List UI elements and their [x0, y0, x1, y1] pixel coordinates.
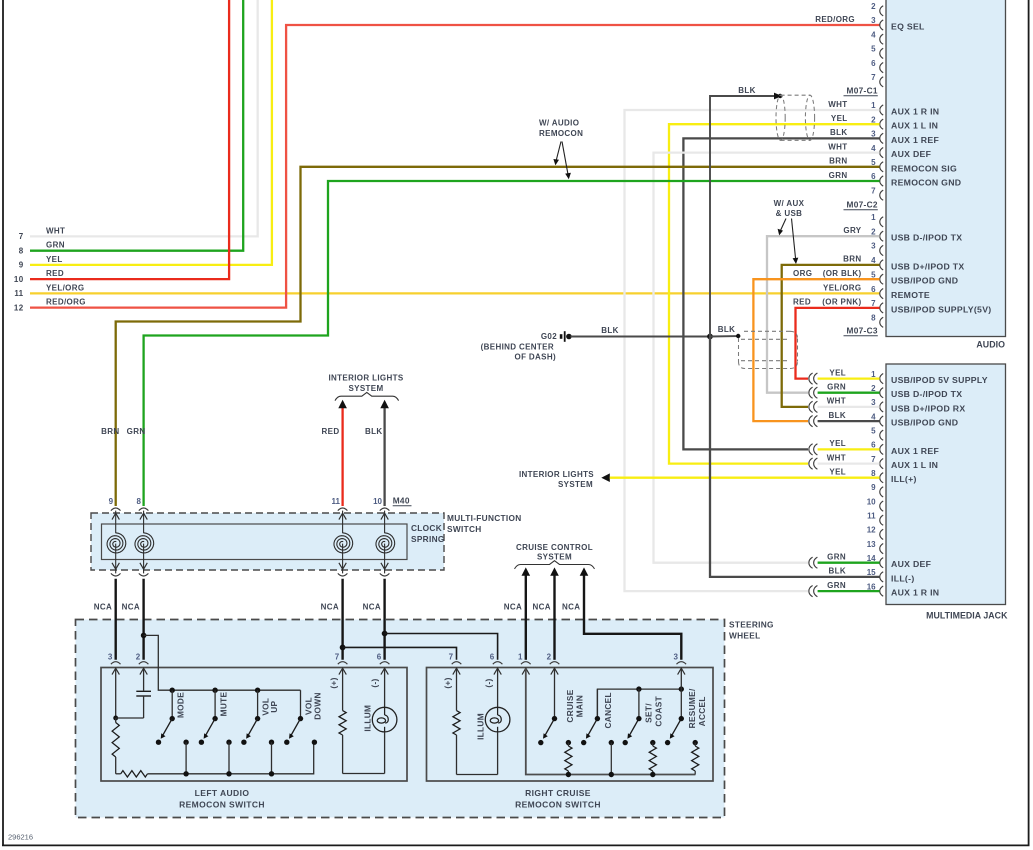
svg-text:& USB: & USB — [776, 209, 803, 218]
wire GRY from M07-C2 pin 2 to multimedia jack pin 2 — [767, 236, 880, 393]
left audio remocon switch box — [101, 668, 407, 782]
wire NCA into cruise pin 1 — [525, 620, 527, 660]
clock spring pin 10 lower connector — [380, 573, 390, 576]
svg-text:6: 6 — [871, 285, 876, 294]
right illum lamp L2 — [485, 668, 510, 774]
rotated label SET/ — [644, 703, 654, 723]
svg-text:5: 5 — [871, 45, 876, 54]
svg-text:2: 2 — [871, 227, 876, 236]
svg-text:RED/ORG: RED/ORG — [815, 15, 855, 24]
svg-text:RESUME/: RESUME/ — [687, 688, 697, 728]
svg-text:SPRING: SPRING — [411, 534, 445, 544]
svg-text:INTERIOR LIGHTS: INTERIOR LIGHTS — [519, 470, 594, 479]
capacitor C1 on pin 2 branch — [136, 668, 151, 718]
svg-text:4: 4 — [871, 144, 876, 153]
wire NCA into cruise pin 2 — [553, 620, 555, 660]
svg-text:RED: RED — [322, 427, 340, 436]
connector label M07-C3 — [844, 326, 878, 336]
svg-text:9: 9 — [871, 483, 876, 492]
svg-text:BRN: BRN — [843, 255, 861, 264]
svg-text:8: 8 — [19, 247, 24, 256]
resistor R6 below SET/COAST contact — [649, 743, 656, 778]
svg-text:(OR BLK): (OR BLK) — [823, 269, 862, 278]
clock spring inner box — [102, 524, 408, 560]
svg-text:5: 5 — [871, 158, 876, 167]
wire BLK from junction up to upper shield drain — [710, 93, 782, 337]
label NCA — [562, 603, 580, 612]
svg-text:(OR PNK): (OR PNK) — [822, 298, 861, 307]
svg-text:NCA: NCA — [321, 603, 339, 612]
wire BLK segment into multimedia jack pin 4 — [818, 420, 880, 422]
label NCA — [363, 603, 381, 612]
svg-text:MULTIMEDIA JACK: MULTIMEDIA JACK — [926, 611, 1008, 621]
svg-text:WHT: WHT — [46, 226, 65, 235]
wire WHT from M07-C1 pin 1 to multimedia jack pin 16 — [625, 110, 880, 591]
left switch bottom bus — [148, 742, 314, 774]
wire WHT segment into multimedia jack pin 7 — [818, 462, 880, 464]
top connector pins 2-7 (EQ SEL row 3) — [815, 2, 925, 87]
svg-text:YEL: YEL — [46, 255, 63, 264]
svg-text:AUX DEF: AUX DEF — [891, 559, 931, 569]
svg-text:MULTI-FUNCTION: MULTI-FUNCTION — [447, 513, 522, 523]
contact drop MODE to bus — [183, 742, 188, 776]
contact drop CANCEL to bus — [609, 743, 614, 778]
svg-text:WHT: WHT — [828, 142, 847, 151]
switch SET/COAST — [623, 689, 656, 745]
M07-C2 pin 6 REMOTE — [823, 283, 930, 300]
rotated label ILLUM right — [475, 713, 485, 740]
connector label M07-C1 — [844, 86, 878, 96]
svg-text:YEL/ORG: YEL/ORG — [823, 283, 861, 292]
svg-text:WHT: WHT — [827, 453, 846, 462]
clock spring label — [411, 523, 445, 544]
svg-text:(-): (-) — [369, 678, 379, 687]
wire WHT segment into multimedia jack pin 3 — [818, 406, 880, 408]
M07-C1 pin 2 AUX 1 L IN — [831, 114, 938, 131]
svg-text:ILLUM: ILLUM — [475, 713, 485, 740]
svg-text:11: 11 — [867, 511, 876, 520]
clock spring coil at pin 11 — [334, 533, 353, 574]
label NCA — [533, 603, 551, 612]
inline connector at multimedia jack pin 14 — [809, 557, 818, 568]
connector label M07-C2 — [844, 200, 878, 210]
switch box pin 2 at x=554.5 — [547, 652, 560, 674]
wire NCA to cruise control system at x=554.5 — [550, 567, 559, 620]
clock spring coil at pin 8 — [135, 533, 154, 574]
svg-text:USB D+/IPOD TX: USB D+/IPOD TX — [891, 261, 964, 271]
svg-text:11: 11 — [14, 289, 23, 298]
inline connector at multimedia jack pin 3 — [809, 401, 818, 412]
svg-text:BLK: BLK — [365, 427, 383, 436]
svg-text:5: 5 — [871, 270, 876, 279]
svg-text:SYSTEM: SYSTEM — [558, 480, 593, 489]
svg-text:1: 1 — [871, 370, 876, 379]
junction on wire to left pin 6 — [382, 631, 388, 637]
label NCA — [94, 603, 112, 612]
svg-text:USB/IPOD SUPPLY(5V): USB/IPOD SUPPLY(5V) — [891, 304, 991, 314]
svg-text:BLK: BLK — [738, 86, 756, 95]
svg-text:WHT: WHT — [828, 100, 847, 109]
junction on pin 2 wire (branch to switches) — [141, 633, 147, 639]
wire NCA branch to right cruise pin 7 — [343, 647, 457, 659]
wire label BRN at clock spring — [101, 427, 119, 436]
page border left — [2, 0, 4, 846]
svg-text:M07-C1: M07-C1 — [846, 86, 877, 96]
svg-text:(+): (+) — [443, 677, 453, 688]
svg-text:296216: 296216 — [8, 833, 33, 842]
wire label BLK (ground wire) — [601, 326, 619, 335]
svg-text:MAIN: MAIN — [575, 695, 585, 717]
svg-text:8: 8 — [137, 497, 142, 506]
svg-text:6: 6 — [490, 652, 495, 661]
wire WHT from left pin 7 up off-page — [30, 0, 258, 236]
switch VOL DOWN — [284, 690, 317, 745]
svg-text:REMOCON GND: REMOCON GND — [891, 178, 961, 188]
svg-text:AUX 1 R IN: AUX 1 R IN — [891, 107, 939, 117]
wire YEL segment into multimedia jack pin 1 — [818, 377, 880, 379]
brace cruise control system — [515, 561, 595, 569]
wire GRN segment into multimedia jack pin 2 — [818, 392, 880, 394]
clock spring pin 8 lower connector — [139, 573, 149, 576]
svg-text:BLK: BLK — [718, 325, 736, 334]
svg-text:2: 2 — [871, 384, 876, 393]
svg-text:5: 5 — [871, 426, 876, 435]
left pin 12 label RED/ORG — [14, 298, 86, 313]
connector label M40 — [393, 496, 412, 506]
svg-text:ACCEL: ACCEL — [697, 696, 707, 726]
svg-text:REMOCON: REMOCON — [539, 129, 583, 138]
switch RESUME/ACCEL — [665, 689, 698, 745]
svg-text:8: 8 — [871, 314, 876, 323]
M07-C2 pin 7 USB/IPOD SUPPLY(5V) — [793, 298, 991, 315]
rotated label CANCEL — [603, 692, 613, 728]
inline connector at multimedia jack pin 7 — [809, 458, 818, 469]
left illum lamp L1 — [372, 668, 397, 773]
wire YEL from left pin 9 up off-page — [30, 0, 272, 265]
rotated label ILLUM left — [362, 705, 372, 732]
cruise pin 3 wire into box — [680, 668, 682, 689]
svg-text:MODE: MODE — [176, 692, 186, 718]
multi-function switch label — [447, 513, 522, 534]
multimedia jack pin 15 ILL(-) — [829, 567, 915, 584]
M07-C2 pin 3 — [871, 242, 883, 256]
svg-text:9: 9 — [19, 261, 24, 270]
M07-C2 pin 2 USB D-/IPOD TX — [843, 226, 962, 243]
wire label GRN at clock spring — [127, 427, 146, 436]
multimedia jack pin 13 — [867, 540, 884, 554]
svg-text:USB D-/IPOD TX: USB D-/IPOD TX — [891, 233, 962, 243]
svg-text:7: 7 — [871, 455, 876, 464]
clock spring pin 11 — [332, 497, 348, 533]
svg-text:AUX 1 L IN: AUX 1 L IN — [891, 460, 938, 470]
junction wire pin3-pin2 — [116, 717, 144, 719]
svg-text:12: 12 — [867, 526, 876, 535]
svg-text:AUX 1 L IN: AUX 1 L IN — [891, 121, 938, 131]
switch CANCEL — [581, 689, 614, 745]
svg-text:G02: G02 — [541, 332, 557, 341]
svg-text:DOWN: DOWN — [313, 692, 323, 719]
svg-text:BRN: BRN — [829, 157, 847, 166]
switch MODE — [156, 688, 189, 745]
svg-text:(-): (-) — [483, 678, 493, 687]
svg-text:YEL/ORG: YEL/ORG — [46, 283, 84, 292]
rotated label (+) right — [443, 677, 453, 688]
svg-text:SWITCH: SWITCH — [447, 524, 482, 534]
svg-text:ILLUM: ILLUM — [362, 705, 372, 732]
svg-text:GRY: GRY — [843, 226, 861, 235]
clock spring pin 8 — [137, 497, 149, 533]
svg-text:YEL: YEL — [829, 368, 846, 377]
svg-text:BLK: BLK — [601, 326, 619, 335]
left pin 10 label RED — [14, 269, 64, 284]
inline connector at multimedia jack pin 16 — [809, 586, 818, 597]
rotated label (-) right — [483, 678, 493, 687]
cruise control system label — [516, 543, 593, 562]
ground G02 location label — [481, 343, 556, 362]
rotated label MUTE — [219, 691, 229, 716]
svg-text:7: 7 — [871, 186, 876, 195]
svg-text:NCA: NCA — [122, 603, 140, 612]
rotated label ACCEL — [697, 696, 707, 726]
multimedia jack label — [926, 611, 1008, 621]
svg-text:3: 3 — [673, 652, 678, 661]
multimedia jack pin 6 AUX 1 REF — [829, 439, 939, 456]
wire NCA to cruise control system at x=525.8 — [522, 567, 531, 620]
svg-text:REMOCON SWITCH: REMOCON SWITCH — [179, 800, 265, 810]
label NCA — [321, 603, 339, 612]
svg-text:W/ AUX: W/ AUX — [774, 199, 805, 208]
svg-text:EQ SEL: EQ SEL — [891, 22, 925, 32]
resistor R1 below pin 3 junction — [112, 718, 119, 774]
svg-text:11: 11 — [332, 497, 341, 506]
wire WHT from M07-C1 pin 4 to multimedia jack pin 14 — [654, 153, 880, 563]
svg-text:AUX 1 REF: AUX 1 REF — [891, 446, 939, 456]
svg-text:AUDIO: AUDIO — [976, 340, 1005, 350]
M07-C1 pin 6 REMOCON GND — [829, 171, 962, 188]
M07-C1 pin 7 — [871, 186, 883, 200]
svg-text:7: 7 — [335, 652, 340, 661]
wire NCA clock spring to steering wheel switch at x=143.6 — [142, 579, 144, 660]
clock spring pin 9 lower connector — [111, 573, 121, 576]
inline connector at multimedia jack pin 1 — [809, 373, 818, 384]
svg-text:STEERING: STEERING — [729, 620, 774, 630]
M07-C1 pin 4 AUX DEF — [828, 142, 931, 159]
svg-text:NCA: NCA — [504, 603, 522, 612]
svg-text:3: 3 — [871, 16, 876, 25]
svg-text:BLK: BLK — [829, 411, 847, 420]
contact drop MUTE to bus — [226, 742, 231, 776]
cruise pin 3 bus — [597, 686, 684, 720]
svg-text:6: 6 — [871, 59, 876, 68]
wire YEL from M07-C1 pin 2 to multimedia jack pin 7 — [669, 124, 880, 463]
diagram number 296216 — [8, 833, 33, 842]
clock spring pin 11 lower connector — [338, 573, 348, 576]
svg-text:BRN: BRN — [101, 427, 119, 436]
svg-text:GRN: GRN — [46, 241, 65, 250]
switch box pin 3 at x=115.7 — [108, 652, 121, 674]
page border bottom — [2, 844, 1030, 846]
steering wheel dashed box — [76, 620, 725, 818]
wire BLK from G02 to junction — [571, 336, 711, 338]
svg-text:USB/IPOD 5V SUPPLY: USB/IPOD 5V SUPPLY — [891, 375, 988, 385]
svg-text:USB D+/IPOD RX: USB D+/IPOD RX — [891, 403, 965, 413]
svg-text:SET/: SET/ — [644, 703, 654, 723]
svg-text:ILL(-): ILL(-) — [891, 573, 915, 583]
svg-text:USB D-/IPOD TX: USB D-/IPOD TX — [891, 389, 962, 399]
clock spring / multi-function switch dashed box — [91, 513, 444, 570]
multimedia jack pin 3 USB D+/IPOD RX — [827, 397, 966, 414]
svg-text:10: 10 — [373, 497, 382, 506]
svg-text:YEL: YEL — [829, 468, 846, 477]
audio box label AUDIO — [976, 340, 1005, 350]
svg-text:10: 10 — [14, 275, 24, 284]
svg-text:GRN: GRN — [827, 383, 846, 392]
multimedia jack pin 4 USB/IPOD GND — [829, 411, 959, 428]
junction on wire to left pin 7 — [340, 645, 346, 651]
wire RED clock spring pin 11 to interior lights — [338, 400, 347, 506]
svg-text:YEL: YEL — [831, 114, 848, 123]
rotated label RESUME/ — [687, 688, 697, 728]
svg-text:COAST: COAST — [654, 696, 664, 727]
svg-text:M40: M40 — [393, 496, 410, 506]
wire YEL segment into multimedia jack pin 6 — [818, 448, 880, 450]
svg-text:7: 7 — [871, 73, 876, 82]
multimedia jack pin 9 — [871, 483, 883, 497]
wire RED/ORG from left pin 12 to EQ SEL pin 3 — [30, 25, 880, 308]
svg-text:BLK: BLK — [829, 567, 847, 576]
svg-text:10: 10 — [867, 497, 876, 506]
wire GRN REMOCON GND from M07-C1 pin 6 to clock spring pin 8 — [144, 181, 880, 506]
svg-text:REMOCON SIG: REMOCON SIG — [891, 163, 957, 173]
M07-C2 pin 8 — [871, 314, 883, 328]
left switch pin 3 wire to junction — [113, 668, 118, 720]
svg-text:NCA: NCA — [94, 603, 112, 612]
rotated label UP — [269, 700, 279, 712]
left pin 7 label WHT — [19, 226, 66, 241]
svg-text:UP: UP — [269, 700, 279, 712]
svg-text:2: 2 — [547, 652, 552, 661]
svg-text:8: 8 — [871, 469, 876, 478]
svg-text:ORG: ORG — [793, 269, 812, 278]
page border right — [1028, 0, 1030, 846]
rotated label CRUISE — [565, 689, 575, 722]
multimedia jack pin 10 — [867, 497, 884, 511]
svg-text:2: 2 — [871, 2, 876, 11]
right cruise remocon switch label — [515, 788, 601, 810]
svg-text:13: 13 — [867, 540, 876, 549]
switch CRUISE MAIN — [538, 668, 571, 745]
junction on BLK ground wire — [707, 334, 713, 340]
switch MUTE — [199, 688, 232, 745]
rotated label DOWN — [313, 692, 323, 719]
wire YEL ILL(+) from multimedia jack pin 8 to interior lights system — [610, 477, 880, 479]
wire GRN segment into multimedia jack pin 14 — [818, 562, 880, 564]
multimedia jack pin 16 AUX 1 R IN — [827, 581, 939, 598]
left pin 9 label YEL — [19, 255, 63, 270]
svg-text:GRN: GRN — [829, 171, 848, 180]
svg-text:MUTE: MUTE — [219, 691, 229, 716]
multimedia jack pin 14 AUX DEF — [827, 553, 931, 570]
svg-text:GRN: GRN — [827, 553, 846, 562]
svg-text:OF DASH): OF DASH) — [515, 353, 556, 362]
svg-text:ILL(+): ILL(+) — [891, 474, 917, 484]
cruise pin 1 feed to switch bus — [526, 668, 696, 774]
svg-text:1: 1 — [518, 652, 523, 661]
wire ORG from M07-C2 pin 5 to multimedia jack pin 4 — [753, 279, 879, 421]
resistor R5 below CRUISE MAIN contact — [565, 743, 572, 778]
contact drop VOL DOWN to bus — [0, 0, 1, 1]
svg-text:M07-C3: M07-C3 — [846, 326, 877, 336]
wire BLK junction to shield drain — [710, 334, 740, 338]
rotated label COAST — [654, 696, 664, 727]
wire label BLK (upper drain) — [738, 86, 756, 95]
svg-text:AUX DEF: AUX DEF — [891, 149, 931, 159]
rotated label MODE — [176, 692, 186, 718]
wire RED from M07-C2 pin 7 to multimedia jack pin 1 — [796, 308, 880, 379]
svg-text:AUX 1 R IN: AUX 1 R IN — [891, 588, 939, 598]
M07-C2 pin 5 USB/IPOD GND — [793, 269, 958, 286]
svg-text:YEL: YEL — [829, 439, 846, 448]
svg-text:RED: RED — [793, 298, 811, 307]
svg-text:(+): (+) — [329, 677, 339, 688]
rotated label (-) left — [369, 678, 379, 687]
svg-text:RIGHT CRUISE: RIGHT CRUISE — [525, 788, 591, 798]
svg-text:GRN: GRN — [127, 427, 146, 436]
svg-text:WHT: WHT — [827, 397, 846, 406]
audio unit connector box — [886, 0, 1006, 337]
rotated label (+) left — [329, 677, 339, 688]
wire BLK from M07-C1 pin 3 to multimedia jack pin 6 — [683, 138, 879, 449]
M07-C1 pin 1 AUX 1 R IN — [828, 100, 939, 117]
svg-text:W/ AUDIO: W/ AUDIO — [539, 119, 579, 128]
note W/ AUX & USB with arrows — [774, 199, 805, 264]
M07-C2 pin 1 — [871, 213, 883, 227]
switch box pin 1 at x=525.8 — [518, 652, 531, 674]
switch box pin 3 at x=681.3 — [673, 652, 686, 674]
inline connector at multimedia jack pin 4 — [809, 416, 818, 427]
svg-text:1: 1 — [871, 213, 876, 222]
wire label RED — [322, 427, 340, 436]
multimedia jack pin 7 AUX 1 L IN — [827, 453, 939, 470]
clock spring coil at pin 9 — [107, 533, 126, 574]
rotated label VOL — [260, 698, 270, 716]
svg-text:WHEEL: WHEEL — [729, 631, 760, 641]
wire NCA clock spring to steering wheel switch at x=384.6 — [383, 579, 385, 660]
wire BLK clock spring pin 10 to interior lights — [380, 400, 389, 506]
clock spring pin 9 — [109, 497, 121, 533]
resistor R7 below RESUME/ACCEL contact — [692, 743, 699, 775]
ground G02 symbol — [541, 331, 572, 342]
svg-text:CRUISE CONTROL: CRUISE CONTROL — [516, 543, 593, 552]
inline connector at multimedia jack pin 6 — [809, 444, 818, 455]
svg-text:NCA: NCA — [363, 603, 381, 612]
svg-text:AUX 1 REF: AUX 1 REF — [891, 135, 939, 145]
clock spring pin 10 — [373, 497, 389, 533]
right illum resistor R4 — [453, 668, 460, 774]
svg-text:RED/ORG: RED/ORG — [46, 298, 86, 307]
svg-text:REMOTE: REMOTE — [891, 290, 930, 300]
right cruise remocon switch box — [427, 668, 714, 782]
svg-text:INTERIOR LIGHTS: INTERIOR LIGHTS — [328, 374, 403, 383]
steering wheel label — [729, 620, 774, 641]
svg-text:9: 9 — [109, 497, 114, 506]
wire YEL/ORG from left pin 11 to M07-C2 pin 6 REMOTE — [30, 292, 880, 294]
multimedia jack pin 1 USB/IPOD 5V SUPPLY — [829, 368, 987, 385]
svg-text:NCA: NCA — [533, 603, 551, 612]
M07-C1 pin 3 AUX 1 REF — [830, 128, 939, 145]
switch box pin 7 at x=456.5 — [449, 652, 462, 674]
svg-text:USB/IPOD GND: USB/IPOD GND — [891, 418, 958, 428]
